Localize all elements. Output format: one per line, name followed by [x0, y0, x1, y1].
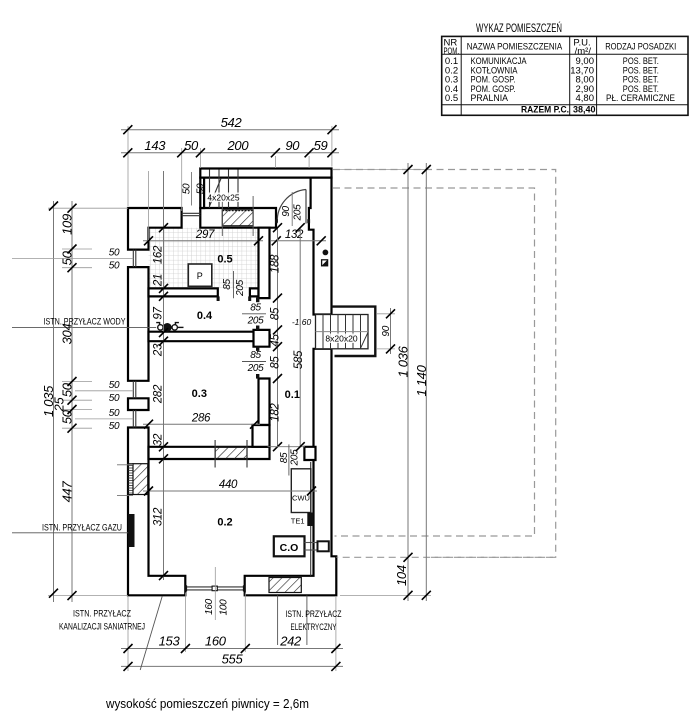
svg-text:ISTN. PRZYŁACZ WODY: ISTN. PRZYŁACZ WODY: [44, 317, 126, 327]
svg-text:85: 85: [250, 350, 261, 361]
svg-text:50: 50: [109, 408, 120, 419]
svg-text:162: 162: [152, 245, 164, 264]
corridor length dim 585: [293, 223, 305, 451]
south window label 160/100 rotated: [204, 567, 229, 620]
right overall dim 1 140: [425, 163, 427, 601]
corridor chain 188/85/45/85/182: [270, 223, 283, 451]
wall: west pier between windows W2 and W3: [128, 398, 149, 410]
svg-text:242: 242: [279, 634, 302, 649]
svg-text:85: 85: [270, 307, 282, 320]
window W4 glazing (south wall) with mullion mark: [185, 585, 244, 591]
room 0.5 ceramic tile floor: [149, 228, 259, 289]
west window W1 label 50/50: [12, 247, 133, 271]
svg-text:304: 304: [59, 324, 74, 345]
external stair 8x20x20 treads: [316, 315, 369, 349]
bottom overall dim 555: [121, 665, 343, 667]
wall: vestibule left: [200, 178, 204, 208]
svg-text:282: 282: [152, 384, 164, 404]
svg-text:0.5: 0.5: [445, 93, 458, 104]
svg-text:50: 50: [109, 380, 120, 391]
svg-text:90: 90: [281, 206, 292, 217]
svg-text:297: 297: [195, 229, 215, 241]
boiler C.O: [274, 536, 305, 556]
wall: north band centre (window to entrance door): [200, 208, 276, 228]
svg-text:160: 160: [204, 598, 215, 615]
door 0.2 label 85/205 rotated: [279, 444, 300, 475]
right extension lines: [335, 170, 431, 596]
door 0.5/0.4 jamb marks: [217, 296, 220, 301]
svg-text:P: P: [197, 271, 203, 281]
svg-text:38,40: 38,40: [573, 105, 596, 116]
internal stair 4x20x25 treads: [210, 170, 239, 208]
svg-text:50: 50: [59, 382, 74, 397]
svg-text:0.5: 0.5: [217, 254, 232, 266]
svg-text:90: 90: [285, 138, 300, 153]
water meter symbol: [12, 323, 184, 332]
door 0.3 label 85/205: [242, 350, 266, 374]
svg-text:0.3: 0.3: [192, 388, 207, 400]
dashed outline of ground floor (outer): [333, 170, 556, 558]
svg-text:440: 440: [219, 479, 238, 491]
table header texts: [444, 38, 677, 58]
svg-text:C.O: C.O: [280, 542, 299, 554]
wall: corridor west wall upper segment: [259, 228, 270, 298]
west window W2 label 50/50: [75, 380, 133, 404]
window W3 glazing: [133, 410, 136, 428]
west window W3 label 50/50: [75, 408, 133, 432]
stair label 4x20x25: [207, 193, 241, 203]
svg-text:0.4: 0.4: [197, 310, 213, 322]
svg-text:4,80: 4,80: [576, 93, 595, 104]
room 0.5 width dim 297: [143, 240, 263, 242]
wall: corridor west wall 45cm piece: [254, 330, 270, 347]
svg-text:200: 200: [227, 138, 250, 153]
wall: corridor west wall lower segment: [259, 379, 270, 426]
svg-text:RAZEM P.C.: RAZEM P.C.: [521, 105, 569, 116]
svg-text:8x20x20: 8x20x20: [325, 334, 357, 344]
svg-text:23: 23: [152, 343, 164, 357]
svg-text:PŁ. CERAMICZNE: PŁ. CERAMICZNE: [606, 93, 675, 104]
sewage leader line: [140, 596, 162, 670]
wall: north band left + west wall top: [128, 208, 182, 250]
svg-text:1 140: 1 140: [414, 364, 429, 396]
chimney hatch in west wall: [117, 464, 148, 496]
svg-text:wysokość pomieszczeń piwnicy =: wysokość pomieszczeń piwnicy = 2,6m: [105, 697, 309, 711]
svg-text:RODZAJ POSADZKI: RODZAJ POSADZKI: [605, 42, 676, 53]
table data rows: [445, 56, 675, 104]
right dim 1 036 / 104: [407, 163, 409, 601]
washing machine P: [188, 264, 212, 286]
table footer: [521, 105, 596, 116]
gas connection leader: [12, 532, 128, 534]
door 0.2 width dim line: [268, 446, 306, 448]
svg-text:182: 182: [270, 403, 282, 422]
top extension lines: [128, 126, 332, 211]
svg-text:85: 85: [222, 279, 233, 290]
svg-text:ISTN. PRZYŁACZ: ISTN. PRZYŁACZ: [73, 609, 131, 619]
gas connection point: [128, 514, 134, 547]
svg-text:WYKAZ POMIESZCZEŃ: WYKAZ POMIESZCZEŃ: [476, 22, 562, 35]
vent circle symbol on east wall: [323, 250, 329, 256]
svg-text:1 036: 1 036: [396, 345, 411, 377]
dashed outline inner: [333, 188, 535, 536]
door 0.4 label 85/205: [242, 302, 266, 326]
svg-text:PRALNIA: PRALNIA: [471, 93, 509, 104]
wall: partition 0.5/0.4 right piece: [250, 288, 259, 296]
svg-text:50: 50: [109, 393, 120, 404]
svg-text:59: 59: [314, 138, 328, 153]
svg-text:109: 109: [59, 214, 74, 235]
wall: west pier between window W1 and W2: [128, 267, 149, 381]
svg-text:0.2: 0.2: [217, 517, 232, 529]
svg-text:-1,60: -1,60: [292, 317, 312, 327]
wall furring line right wall: [310, 462, 312, 576]
svg-text:NAZWA POMIESZCZENIA: NAZWA POMIESZCZENIA: [467, 42, 563, 53]
west room dim chain 162/21/97/23/282/32/312: [149, 171, 169, 580]
entrance door label 90/205: [281, 192, 303, 226]
svg-text:97: 97: [152, 307, 164, 320]
svg-text:50: 50: [59, 409, 74, 424]
svg-text:25: 25: [52, 397, 67, 413]
svg-text:50: 50: [59, 250, 74, 265]
C.O flue connection through wall: [305, 541, 329, 551]
svg-text:205: 205: [247, 363, 265, 374]
svg-text:4x20x25: 4x20x25: [207, 193, 239, 203]
svg-text:205: 205: [247, 315, 265, 326]
svg-text:KANALIZACJI SANIATRNEJ: KANALIZACJI SANIATRNEJ: [59, 622, 145, 632]
svg-text:312: 312: [152, 507, 164, 526]
svg-text:50: 50: [109, 260, 120, 271]
external stair dim 90: [377, 308, 395, 354]
wall: east wall lower + south wall right with SE step: [245, 349, 337, 596]
corridor door jamb marks: [256, 298, 259, 379]
svg-text:132: 132: [285, 229, 304, 241]
svg-text:143: 143: [144, 138, 166, 153]
vestibule dim 132: [271, 240, 326, 242]
wall: partition 0.3/0.2 right jamb piece: [304, 447, 315, 460]
svg-text:ISTN. PRZYŁACZ: ISTN. PRZYŁACZ: [286, 609, 342, 619]
svg-text:50: 50: [181, 183, 192, 194]
hot water tank CWU: [291, 469, 311, 513]
svg-text:447: 447: [59, 481, 74, 503]
svg-text:ELEKTRYCZNY: ELEKTRYCZNY: [291, 622, 337, 632]
wall: partition 0.5/0.4 left piece: [149, 288, 218, 296]
svg-text:50: 50: [109, 421, 120, 432]
DIMENSIONS: [12, 115, 557, 671]
MAIN-PLAN: [12, 169, 375, 596]
wall: east wall upper with entrance jamb: [309, 178, 332, 315]
svg-text:555: 555: [222, 651, 244, 666]
chimney flue leader lines: [221, 199, 223, 236]
svg-text:205: 205: [292, 204, 303, 222]
window W2 glazing: [133, 381, 136, 399]
table grid: [442, 36, 688, 115]
DASHED OUTLINES: [333, 170, 556, 558]
chimney hatch in north band: [222, 210, 253, 226]
svg-text:45: 45: [270, 334, 282, 347]
left overall dim 1 035: [53, 201, 55, 602]
window W-N glazing (north wall 50/50): [182, 213, 201, 215]
bottom extension lines: [128, 593, 336, 672]
svg-text:153: 153: [159, 634, 181, 649]
svg-text:50: 50: [109, 247, 120, 258]
svg-text:104: 104: [394, 565, 409, 586]
external stair label 8x20x20: [325, 334, 357, 344]
svg-text:50: 50: [184, 138, 199, 153]
svg-text:50: 50: [195, 183, 206, 194]
wall: partition 0.4/0.3: [149, 332, 259, 342]
electric panel TE1: [291, 513, 314, 527]
hatch block in partition 0.3/0.2: [215, 440, 247, 468]
left extension lines: [48, 208, 128, 595]
north window label 50/50: [181, 172, 206, 206]
top chain dims 143/50/200/90/59: [121, 152, 339, 154]
top overall dim 542: [121, 129, 339, 131]
svg-text:90: 90: [381, 325, 392, 336]
svg-text:TE1: TE1: [291, 517, 305, 526]
bottom chain dims 153/160/242: [121, 648, 343, 650]
electrical hatch block in south wall: [269, 578, 301, 593]
left chain dims 109/50/304/50/25/50/447: [71, 201, 73, 602]
svg-text:205: 205: [235, 279, 246, 297]
entrance door jamb marks: [275, 219, 278, 223]
level label -1,60: [291, 317, 312, 327]
vent square symbol on east wall: [322, 260, 328, 266]
wall: vestibule top: [200, 169, 331, 178]
room 0.2 width dim 440: [143, 490, 317, 492]
svg-text:0.1: 0.1: [285, 389, 300, 401]
svg-text:21: 21: [152, 274, 164, 287]
svg-text:188: 188: [270, 254, 282, 273]
door 0.5/0.4 label 85/205 rotated: [222, 271, 246, 298]
svg-text:100: 100: [219, 599, 230, 616]
svg-text:542: 542: [221, 115, 243, 130]
svg-text:585: 585: [293, 350, 305, 369]
external stair enclosure walls: [332, 307, 376, 356]
svg-text:160: 160: [205, 634, 227, 649]
svg-text:ISTN. PRZYŁACZ GAZU: ISTN. PRZYŁACZ GAZU: [42, 523, 122, 533]
TABLE: [442, 22, 688, 116]
wall: west wall bottom + south wall left: [128, 428, 185, 596]
svg-text:85: 85: [250, 302, 261, 313]
electrical leader lines: [278, 595, 307, 645]
svg-text:205: 205: [290, 449, 301, 467]
svg-text:85: 85: [270, 356, 282, 369]
wall: corridor west wall bottom pilaster: [253, 425, 270, 447]
svg-text:32: 32: [152, 433, 164, 446]
window W1 glazing (west wall top): [133, 250, 136, 268]
svg-text:286: 286: [191, 412, 211, 424]
room 0.3 width dim 286: [143, 423, 260, 425]
wall: partition 0.3/0.2 left piece: [149, 447, 270, 459]
entrance door leaf and swing arc: [277, 190, 306, 224]
